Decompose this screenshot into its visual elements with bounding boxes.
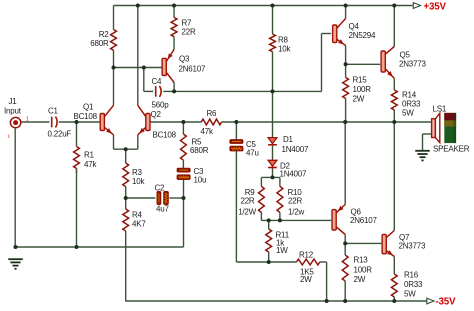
label 2N5294: [349, 31, 376, 40]
capacitor C2: [157, 192, 168, 205]
label BC108 Q2: [153, 131, 177, 140]
svg-text:R2: R2: [99, 30, 110, 39]
svg-text:R15: R15: [353, 76, 368, 85]
label R2: [99, 30, 110, 39]
label 22R R7: [182, 28, 196, 37]
junction node R1 / ground rail: [75, 245, 79, 249]
junction node Q2 collector / +35V: [136, 4, 140, 8]
label C1: [48, 107, 59, 116]
junction node Q4 emitter / Q5 base: [344, 62, 348, 66]
svg-text:47k: 47k: [201, 127, 214, 136]
label R8: [278, 36, 289, 45]
diode D2: [268, 160, 277, 167]
junction node R12 / -35V: [325, 299, 329, 303]
resistor R2: [111, 30, 117, 51]
junction node D2 / R9R10: [271, 175, 275, 179]
svg-text:R14: R14: [402, 91, 417, 100]
wire bias chain top: [272, 91, 274, 137]
wire D2 to parallel top: [272, 168, 274, 178]
svg-text:1N4007: 1N4007: [280, 170, 307, 179]
transistor Q6: [332, 205, 345, 235]
junction node R3/R4/C2: [124, 196, 128, 200]
svg-text:R13: R13: [354, 256, 369, 265]
wire C5 bottom drop: [236, 151, 268, 262]
svg-text:J1: J1: [9, 97, 18, 106]
label C5: [246, 140, 257, 149]
junction node R7 / +35V: [172, 4, 176, 8]
label 22R R9: [240, 197, 254, 206]
svg-text:C4: C4: [152, 77, 163, 86]
label R14: [402, 91, 417, 100]
transistor Q2: [138, 105, 150, 135]
wire Q5 base line: [346, 63, 381, 65]
label 2N6107 Q6: [350, 216, 377, 225]
label 22R R10: [288, 197, 302, 206]
wire Q3 collector stub: [173, 83, 175, 92]
wire D1-D2 link: [272, 146, 274, 161]
svg-text:5W: 5W: [404, 290, 416, 299]
label R12: [299, 251, 314, 260]
wire +35V top rail: [114, 5, 413, 7]
label Q5: [400, 51, 411, 60]
label C3: [194, 167, 205, 176]
wire Q7 base line: [345, 242, 381, 244]
svg-text:2W: 2W: [353, 95, 365, 104]
junction node emitter join: [124, 147, 128, 151]
ground speaker: [415, 151, 430, 161]
svg-text:-35V: -35V: [436, 296, 456, 307]
svg-text:2N6107: 2N6107: [179, 65, 206, 74]
svg-text:0.22uF: 0.22uF: [48, 130, 72, 139]
wire R12 to -35V corner: [320, 262, 327, 301]
svg-text:R3: R3: [132, 168, 143, 177]
label 100R R15: [353, 85, 372, 94]
svg-text:1: 1: [26, 117, 29, 123]
junction node Q5 collector / +35V: [392, 4, 396, 8]
label R5: [192, 138, 203, 147]
junction node R2 bottom / Q3 base: [112, 66, 116, 70]
label Q3: [179, 55, 190, 64]
label 680R R2: [90, 39, 109, 48]
junction node R16 / -35V: [392, 299, 396, 303]
wire R14 bottom lead: [393, 110, 395, 122]
svg-text:5W: 5W: [402, 109, 414, 118]
label 10k R8: [278, 45, 291, 54]
label 1k: [276, 239, 285, 248]
label 1N4007 D1: [282, 145, 309, 154]
resistor R5: [181, 134, 187, 160]
wire Q5 emitter to R14: [393, 79, 395, 91]
label 1K5: [300, 268, 314, 277]
svg-text:1N4007: 1N4007: [282, 145, 309, 154]
junction node C4 tap: [142, 66, 146, 70]
wire C2 right lead: [169, 197, 183, 199]
junction node C3/C2: [182, 196, 186, 200]
label R16: [404, 271, 419, 280]
svg-text:680R: 680R: [90, 39, 109, 48]
label 5W R16: [404, 290, 416, 299]
label SPEAKER: [433, 145, 470, 154]
label D1: [283, 135, 294, 144]
svg-text:R6: R6: [207, 109, 218, 118]
label R13: [354, 256, 369, 265]
label 0R33 R14: [402, 100, 421, 109]
wire R15 leads: [345, 64, 347, 122]
label R9: [245, 188, 256, 197]
label 4K7: [132, 220, 146, 229]
resistor R4: [123, 209, 129, 231]
svg-text:2W: 2W: [300, 275, 312, 284]
junction node R8 / +35V: [271, 4, 275, 8]
label 0.22uF: [48, 130, 72, 139]
svg-text:560p: 560p: [152, 101, 170, 110]
resistor R6: [201, 119, 221, 125]
svg-text:Input: Input: [4, 107, 22, 116]
wire R7 to Q3 emitter: [173, 37, 175, 50]
svg-text:22R: 22R: [182, 28, 196, 37]
label 2N3773 Q7: [399, 242, 426, 251]
label 560p: [152, 101, 170, 110]
label J1: [9, 97, 18, 106]
svg-text:Q2: Q2: [151, 110, 162, 119]
label 2N6107 Q3: [179, 65, 206, 74]
svg-text:R16: R16: [404, 271, 419, 280]
wire -35V bottom rail: [126, 300, 427, 302]
wire R5 leads: [182, 122, 184, 168]
wire Q2 collector column: [137, 6, 139, 106]
label +35V: [424, 1, 447, 12]
label 4u7: [156, 205, 169, 214]
wire R8 column: [272, 6, 274, 92]
svg-text:1W: 1W: [276, 246, 288, 255]
wire R13 leads: [344, 243, 346, 301]
power +35V arrow: [413, 3, 420, 9]
junction node R5 / Q2 base: [181, 120, 185, 124]
resistor R1: [74, 147, 80, 169]
label 1W: [276, 246, 288, 255]
svg-text:1/2W: 1/2W: [238, 208, 256, 217]
capacitor C5: [230, 140, 243, 151]
label R15: [353, 76, 368, 85]
svg-text:Q1: Q1: [83, 103, 94, 112]
transistor Q1: [100, 105, 113, 135]
svg-text:4u7: 4u7: [156, 205, 169, 214]
wire Q7 emitter to R16: [393, 257, 395, 275]
label D2: [280, 162, 291, 171]
capacitor C3: [177, 168, 190, 179]
junction node R15 / output: [343, 120, 347, 124]
connector J1: [10, 117, 20, 127]
svg-text:R1: R1: [84, 151, 95, 160]
wire speaker return: [423, 134, 432, 150]
wire R16 bottom lead: [393, 297, 395, 301]
resistor R7: [171, 17, 177, 36]
wire R4 to -35V rail: [124, 231, 126, 301]
label 47u: [246, 149, 259, 158]
junction node Q4 collector / +35V: [344, 4, 348, 8]
power -35V arrow: [427, 298, 434, 304]
label Input: [4, 107, 22, 116]
svg-text:10k: 10k: [132, 177, 145, 186]
wire emitter join: [114, 148, 138, 150]
wire R7 top lead: [173, 6, 175, 18]
label 2W R13: [354, 275, 366, 284]
wire R2 leads: [113, 6, 115, 68]
label 680R R5: [190, 146, 209, 155]
wire output rail mid: [222, 121, 432, 123]
junction node R11 / R12: [267, 260, 271, 264]
resistor R13: [342, 255, 348, 281]
svg-text:R7: R7: [182, 19, 193, 28]
svg-text:1/2w: 1/2w: [288, 208, 304, 217]
svg-text:22R: 22R: [240, 197, 254, 206]
junction node R1 / input: [75, 120, 79, 124]
svg-text:2N6107: 2N6107: [350, 216, 377, 225]
svg-text:47u: 47u: [246, 149, 259, 158]
wire Q5 collector col: [393, 6, 395, 47]
junction node R10 bottom: [278, 218, 282, 222]
label 5W R14: [402, 109, 414, 118]
ground input: [8, 259, 23, 269]
junction node C5 / output: [234, 120, 238, 124]
wire Q4 base line y91: [174, 90, 321, 92]
label 2W R15: [353, 95, 365, 104]
label 10u: [194, 176, 207, 185]
label 2N3773 Q5: [399, 60, 426, 69]
label 47k R6: [201, 127, 214, 136]
wire R2/Q1 collector column: [113, 68, 115, 106]
svg-text:2N3773: 2N3773: [399, 60, 426, 69]
label R10: [288, 188, 303, 197]
label Q1: [83, 103, 94, 112]
wire Q6 emitter col: [344, 122, 346, 205]
transistor Q4: [333, 19, 346, 46]
svg-text:10k: 10k: [278, 45, 291, 54]
label 47k R1: [84, 160, 97, 169]
wire C2 left lead: [126, 197, 156, 199]
svg-text:BC108: BC108: [74, 112, 98, 121]
label R4: [132, 211, 143, 220]
label R7: [182, 19, 193, 28]
junction node R8 / Q4 base line: [271, 89, 275, 93]
svg-text:0R33: 0R33: [402, 100, 421, 109]
svg-text:47k: 47k: [84, 160, 97, 169]
label C2: [155, 184, 166, 193]
wire C4 branch drop: [144, 68, 153, 92]
label 1/2W R9: [238, 208, 256, 217]
wire Q7 collector col: [393, 122, 395, 231]
wire R11 node to R12: [269, 261, 297, 263]
resistor R3: [123, 163, 129, 187]
label 1N4007 D2: [280, 170, 307, 179]
wire R9 stubs: [260, 177, 262, 220]
junction node R11 top: [267, 218, 271, 222]
wire R11 column: [268, 220, 270, 262]
wire Q2 emitter drop: [137, 135, 139, 149]
label Q7: [399, 233, 410, 242]
label Q6: [351, 208, 362, 217]
svg-text:680R: 680R: [190, 146, 209, 155]
resistor R15: [343, 78, 349, 99]
svg-text:C1: C1: [48, 107, 59, 116]
wire Q4 collector: [345, 6, 347, 19]
speaker LS1: [432, 113, 457, 143]
svg-text:D1: D1: [283, 135, 294, 144]
wire Q3 base line: [114, 67, 163, 69]
svg-text:4K7: 4K7: [132, 220, 146, 229]
label R6: [207, 109, 218, 118]
svg-text:R8: R8: [278, 36, 289, 45]
wire R9R10 bottom to Q6 base: [261, 219, 331, 221]
junction node R14 / output: [392, 120, 396, 124]
capacitor C1: [52, 117, 58, 128]
label 100R R13: [354, 266, 373, 275]
label R1: [84, 151, 95, 160]
resistor R9: [259, 186, 265, 212]
svg-text:+35V: +35V: [424, 1, 447, 12]
junction node ground rail left: [14, 245, 18, 249]
label 10k R3: [132, 177, 145, 186]
wire Q6 collector col: [344, 235, 346, 244]
svg-text:2N3773: 2N3773: [399, 242, 426, 251]
capacitor C4: [156, 86, 162, 97]
label BC108 Q1: [74, 112, 98, 121]
wire Q4 emitter col: [345, 46, 347, 65]
label LS1: [433, 105, 447, 114]
resistor R11: [266, 229, 272, 252]
svg-text:LS1: LS1: [433, 105, 447, 114]
wire Q4 base corner: [322, 34, 332, 92]
svg-text:Q5: Q5: [400, 51, 411, 60]
svg-text:100R: 100R: [353, 85, 372, 94]
wire Q1 emitter drop: [113, 135, 115, 149]
wire R10 stubs: [279, 177, 281, 220]
label 2W R12: [300, 275, 312, 284]
wire C1 to Q1 base: [59, 121, 101, 123]
junction node Q6 collector / Q7 base: [343, 241, 347, 245]
svg-text:BC108: BC108: [153, 131, 177, 140]
wire C4 to Q3 collector node: [163, 90, 174, 92]
wire R1 column: [76, 122, 78, 247]
svg-text:Q3: Q3: [179, 55, 190, 64]
transistor Q3: [162, 49, 174, 82]
svg-text:R4: R4: [132, 211, 143, 220]
diode D1: [268, 138, 277, 145]
label 0R33 R16: [404, 280, 423, 289]
junction node Q3 collector / C4: [172, 89, 176, 93]
wire ground rail: [16, 246, 184, 248]
svg-text:R12: R12: [299, 251, 314, 260]
svg-text:SPEAKER: SPEAKER: [433, 145, 470, 154]
svg-text:22R: 22R: [288, 197, 302, 206]
wire J1 shield drop: [14, 128, 16, 247]
svg-text:100R: 100R: [354, 266, 373, 275]
label R11: [276, 231, 290, 240]
resistor R10: [277, 186, 283, 212]
svg-text:Q4: Q4: [349, 22, 360, 31]
junction node R13 / -35V: [343, 299, 347, 303]
resistor R16: [391, 274, 397, 297]
wire input J1 to C1: [21, 121, 49, 123]
resistor R12: [297, 259, 320, 265]
svg-text:10u: 10u: [194, 176, 207, 185]
svg-text:2N5294: 2N5294: [349, 31, 376, 40]
label Q2: [151, 110, 162, 119]
pin mark J1 shield: [8, 134, 11, 139]
label C4: [152, 77, 163, 86]
wire C3 bottom to C2 node: [183, 180, 185, 248]
transistor Q7: [382, 231, 394, 257]
label -35V: [436, 296, 456, 307]
resistor R8: [270, 34, 276, 52]
wire tail column R3: [125, 149, 127, 209]
label Q4: [349, 22, 360, 31]
transistor Q5: [381, 47, 394, 79]
wire R9R10 top rail: [261, 176, 280, 178]
svg-text:C2: C2: [155, 184, 166, 193]
resistor R14: [391, 90, 397, 110]
label R3: [132, 168, 143, 177]
label 1/2w R10: [288, 208, 304, 217]
wire C5 top lead: [235, 122, 237, 140]
pin 1 of J1: [26, 117, 29, 123]
svg-text:2W: 2W: [354, 275, 366, 284]
wire Q2 base to R5 node: [150, 121, 202, 123]
svg-text:0R33: 0R33: [404, 280, 423, 289]
